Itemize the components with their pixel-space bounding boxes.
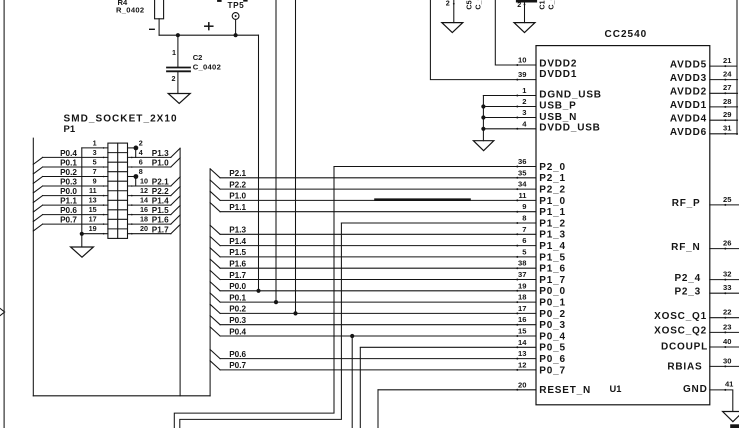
svg-text:10: 10 xyxy=(140,176,148,185)
svg-text:P0.3: P0.3 xyxy=(229,316,246,325)
svg-text:34: 34 xyxy=(518,180,527,189)
svg-text:P1: P1 xyxy=(64,124,76,135)
pin 35 P2_1 xyxy=(220,168,566,184)
bus entry P0.6 xyxy=(210,350,246,359)
pin 20 RESET_N xyxy=(378,380,591,396)
svg-text:USB_P: USB_P xyxy=(539,101,576,112)
P1 pin 17 P0.7 xyxy=(33,215,108,232)
bus entry P0.4 xyxy=(210,327,246,336)
svg-text:P0.2: P0.2 xyxy=(229,305,246,314)
svg-text:P0.4: P0.4 xyxy=(60,149,77,158)
pin 39 DVDD1 xyxy=(516,69,577,81)
svg-text:RF_P: RF_P xyxy=(672,198,701,209)
svg-text:P1.0: P1.0 xyxy=(152,159,169,168)
svg-text:2: 2 xyxy=(139,138,143,147)
svg-text:AVDD4: AVDD4 xyxy=(670,113,707,124)
capacitor C1 (top) lead xyxy=(524,3,526,23)
pin 22 XOSC_Q1 xyxy=(654,308,739,322)
svg-text:P0.6: P0.6 xyxy=(60,206,77,215)
wire VDD node to P0_0 xyxy=(258,35,260,291)
svg-text:R_0402: R_0402 xyxy=(116,5,144,14)
bus entry P1.1 xyxy=(210,203,246,212)
svg-text:4: 4 xyxy=(139,148,143,157)
svg-text:DCOUPL: DCOUPL xyxy=(661,342,708,353)
svg-text:P0.4: P0.4 xyxy=(229,327,246,336)
cropped mark top edge left xyxy=(217,0,222,2)
P1 pin 2 xyxy=(128,138,143,157)
svg-text:P2_0: P2_0 xyxy=(539,162,566,173)
bus entry P2.2 xyxy=(210,180,246,189)
P1 pin 11 P0.0 xyxy=(33,186,108,203)
svg-text:P1.6: P1.6 xyxy=(229,260,246,269)
svg-text:2: 2 xyxy=(517,0,521,9)
pin 33 P2_3 xyxy=(674,283,739,297)
pin 13 P0_6 xyxy=(220,349,566,365)
svg-text:P2.2: P2.2 xyxy=(229,180,246,189)
svg-text:28: 28 xyxy=(723,97,731,106)
capacitor C1 (top) plate xyxy=(516,0,537,3)
ground at C1 xyxy=(514,23,535,33)
pin 2 USB_P xyxy=(483,97,576,112)
svg-text:40: 40 xyxy=(723,337,731,346)
bus entry P1.5 xyxy=(210,248,246,257)
svg-text:26: 26 xyxy=(723,239,731,248)
P1 pin 20 P1.7 xyxy=(128,224,181,234)
svg-text:39: 39 xyxy=(518,70,526,79)
svg-text:P1.4: P1.4 xyxy=(152,197,169,206)
pin 5 P1_5 xyxy=(220,247,566,263)
svg-text:P0.0: P0.0 xyxy=(60,187,77,196)
junction P1 pin19 xyxy=(80,232,84,236)
junction on P0_0 wire xyxy=(256,289,260,293)
wire P0_4 tap down xyxy=(351,336,353,428)
svg-text:GND: GND xyxy=(683,384,708,395)
wire RESET_N route down xyxy=(377,390,379,428)
svg-text:P0_1: P0_1 xyxy=(539,298,566,309)
P1 pin 7 P0.2 xyxy=(33,167,108,184)
svg-text:P1.0: P1.0 xyxy=(229,192,246,201)
svg-text:38: 38 xyxy=(518,259,526,268)
ground at C2 xyxy=(168,94,190,104)
pin 41 GND xyxy=(683,380,734,412)
pin 7 P1_3 xyxy=(220,225,566,241)
svg-text:P0.2: P0.2 xyxy=(60,168,77,177)
svg-text:16: 16 xyxy=(140,205,148,214)
svg-text:11: 11 xyxy=(518,191,527,200)
svg-text:9: 9 xyxy=(522,202,526,211)
capacitor C2 xyxy=(167,35,190,93)
svg-text:C5: C5 xyxy=(465,0,474,9)
svg-text:DVDD2: DVDD2 xyxy=(539,58,577,69)
P1 pin 6 P1.0 xyxy=(128,157,181,167)
pin 18 P0_1 xyxy=(220,293,566,309)
bus socket-right vertical xyxy=(179,148,181,395)
svg-text:P1_6: P1_6 xyxy=(539,264,566,275)
svg-text:XOSC_Q2: XOSC_Q2 xyxy=(654,326,707,337)
svg-text:37: 37 xyxy=(518,270,526,279)
P1 pin 10 P2.1 xyxy=(128,176,181,186)
wire R4 to node xyxy=(158,19,160,35)
svg-text:1: 1 xyxy=(93,138,97,147)
svg-text:15: 15 xyxy=(518,327,527,336)
P1 pin 4 P1.3 xyxy=(128,148,181,158)
svg-text:P0.1: P0.1 xyxy=(60,159,77,168)
svg-text:P2.1: P2.1 xyxy=(152,178,169,187)
svg-text:6: 6 xyxy=(139,157,143,166)
svg-text:36: 36 xyxy=(518,157,526,166)
ground at USB xyxy=(473,141,493,151)
pin 37 P1_7 xyxy=(220,270,566,286)
svg-text:20: 20 xyxy=(518,380,526,389)
bold net segment on P1_0 xyxy=(376,198,470,201)
svg-text:P0.1: P0.1 xyxy=(229,293,246,302)
P1 pin 8 xyxy=(128,167,143,186)
IC U1 CC2540 body xyxy=(536,46,710,405)
pin 27 AVDD2 xyxy=(670,83,738,97)
pin 36 P2_0 xyxy=(334,157,566,173)
battery minus sign xyxy=(150,28,155,30)
capacitor C5 (top) xyxy=(453,0,455,23)
svg-text:14: 14 xyxy=(140,196,148,205)
svg-text:16: 16 xyxy=(518,315,526,324)
P1 pin 16 P1.5 xyxy=(128,205,181,215)
pin 1 DGND_USB xyxy=(483,86,601,101)
wire VDD node horizontal xyxy=(159,34,258,36)
svg-text:P1_5: P1_5 xyxy=(539,252,566,263)
svg-text:P2_4: P2_4 xyxy=(674,273,701,284)
svg-text:P1.5: P1.5 xyxy=(152,206,169,215)
svg-text:P1_4: P1_4 xyxy=(539,241,566,252)
wire USB ground stem xyxy=(482,96,484,141)
svg-text:18: 18 xyxy=(518,293,526,302)
bus entry P1.4 xyxy=(210,237,246,246)
pin 29 AVDD4 xyxy=(670,110,738,124)
junction on P0_1 wire xyxy=(274,300,278,304)
svg-text:P1_0: P1_0 xyxy=(539,196,566,207)
svg-text:C_0402: C_0402 xyxy=(474,0,483,10)
P1 pin 1 xyxy=(82,138,108,148)
svg-text:DVDD1: DVDD1 xyxy=(539,69,577,80)
pin 19 P0_0 xyxy=(220,281,566,297)
pin 25 RF_P xyxy=(672,195,739,209)
svg-text:P1.3: P1.3 xyxy=(229,226,246,235)
svg-text:AVDD1: AVDD1 xyxy=(670,100,707,111)
svg-text:P2_1: P2_1 xyxy=(539,173,566,184)
junction on P0_2 wire xyxy=(293,311,297,315)
P1 pin 15 P0.6 xyxy=(33,205,108,222)
pin 21 AVDD5 xyxy=(670,56,737,70)
svg-text:2: 2 xyxy=(522,97,526,106)
P1 pin 9 P0.3 xyxy=(33,176,108,193)
svg-text:21: 21 xyxy=(723,56,732,65)
svg-text:3: 3 xyxy=(522,108,526,117)
svg-text:P2.1: P2.1 xyxy=(229,169,246,178)
wire P2_0 route xyxy=(174,167,334,428)
wire AVDD rail xyxy=(736,0,738,135)
junction on P0_4 wire xyxy=(350,334,354,338)
wire DVDD2 rail to pin 10 xyxy=(495,0,536,65)
svg-text:CC2540: CC2540 xyxy=(605,29,648,40)
svg-text:23: 23 xyxy=(723,322,731,331)
svg-text:1: 1 xyxy=(522,86,527,95)
bus entry P0.3 xyxy=(210,316,246,325)
wire P1_2 route xyxy=(180,223,342,428)
svg-text:C_0402: C_0402 xyxy=(547,0,556,10)
P1 pin 19 xyxy=(82,224,108,234)
P1 pin 3 P0.4 xyxy=(33,148,108,165)
svg-text:P0.3: P0.3 xyxy=(60,178,77,187)
svg-text:AVDD5: AVDD5 xyxy=(670,59,707,70)
svg-text:7: 7 xyxy=(522,225,526,234)
svg-text:P1.1: P1.1 xyxy=(229,203,246,212)
pin 16 P0_3 xyxy=(220,315,566,331)
svg-text:8: 8 xyxy=(522,214,526,223)
pin 38 P1_6 xyxy=(220,259,566,275)
pin 17 P0_2 xyxy=(220,304,566,320)
pin 24 AVDD3 xyxy=(670,70,738,84)
svg-text:30: 30 xyxy=(723,356,731,365)
junction USB_P xyxy=(481,104,485,108)
svg-text:2: 2 xyxy=(172,74,176,83)
svg-text:11: 11 xyxy=(89,186,97,195)
cropped mark top edge right xyxy=(243,0,247,2)
svg-text:22: 22 xyxy=(723,308,731,317)
svg-text:17: 17 xyxy=(89,215,97,224)
svg-text:14: 14 xyxy=(518,338,527,347)
svg-text:P1.7: P1.7 xyxy=(229,271,246,280)
wire TP5 to node xyxy=(235,19,237,35)
junction at TP5 xyxy=(234,33,238,37)
pin 6 P1_4 xyxy=(220,236,566,252)
pin 8 P1_2 xyxy=(341,214,565,230)
svg-text:32: 32 xyxy=(723,270,731,279)
svg-text:P0.7: P0.7 xyxy=(229,361,246,370)
connector P1 SMD_SOCKET_2X10 body xyxy=(108,143,128,238)
svg-text:P1_3: P1_3 xyxy=(539,230,566,241)
svg-text:P0_2: P0_2 xyxy=(539,309,566,320)
svg-text:24: 24 xyxy=(723,70,732,79)
cropped mark bottom right xyxy=(730,424,739,428)
svg-text:TP5: TP5 xyxy=(228,1,245,10)
wire P0_5 route down xyxy=(359,348,361,428)
svg-text:6: 6 xyxy=(522,236,526,245)
pin 23 XOSC_Q2 xyxy=(654,322,739,336)
svg-text:P0.7: P0.7 xyxy=(60,216,77,225)
svg-text:15: 15 xyxy=(89,205,97,214)
test point TP5 xyxy=(232,13,239,20)
svg-text:P0.6: P0.6 xyxy=(229,350,246,359)
svg-text:RF_N: RF_N xyxy=(671,242,700,253)
svg-text:P0_6: P0_6 xyxy=(539,354,566,365)
svg-text:9: 9 xyxy=(93,176,97,185)
pin 14 P0_5 xyxy=(360,338,566,354)
svg-text:P1_2: P1_2 xyxy=(539,218,566,229)
P1 pin 18 P1.6 xyxy=(128,215,181,225)
svg-text:C2: C2 xyxy=(193,53,203,62)
svg-text:7: 7 xyxy=(93,167,97,176)
pin 3 USB_N xyxy=(483,108,577,123)
svg-text:12: 12 xyxy=(140,186,148,195)
svg-text:P0_0: P0_0 xyxy=(539,286,566,297)
svg-text:RESET_N: RESET_N xyxy=(539,385,591,396)
svg-text:P1.6: P1.6 xyxy=(152,216,169,225)
wire from top to P0_1 xyxy=(275,0,277,302)
junction USB_N xyxy=(481,115,485,119)
svg-text:8: 8 xyxy=(139,167,143,176)
svg-text:P2_2: P2_2 xyxy=(539,185,566,196)
pin 15 P0_4 xyxy=(220,327,566,343)
P1 pin 12 P2.2 xyxy=(128,186,181,196)
svg-text:P2.2: P2.2 xyxy=(152,187,169,196)
svg-text:33: 33 xyxy=(723,283,731,292)
bus entry P1.3 xyxy=(210,225,246,234)
svg-text:USB_N: USB_N xyxy=(539,112,577,123)
svg-text:AVDD3: AVDD3 xyxy=(670,73,707,84)
svg-text:12: 12 xyxy=(518,360,526,369)
pin 40 DCOUPL xyxy=(661,337,739,353)
pin 31 AVDD6 xyxy=(670,124,738,138)
pin 30 RBIAS xyxy=(667,356,739,372)
pin 11 P1_0 xyxy=(220,191,566,207)
pin 4 DVDD_USB xyxy=(483,119,600,133)
svg-text:P1_1: P1_1 xyxy=(539,207,566,218)
svg-text:P0_7: P0_7 xyxy=(539,365,566,376)
bus entry P1.0 xyxy=(210,191,246,200)
svg-text:25: 25 xyxy=(723,195,732,204)
bus entry P0.1 xyxy=(210,293,246,302)
svg-text:10: 10 xyxy=(518,56,526,65)
svg-text:4: 4 xyxy=(522,119,527,128)
svg-text:U1: U1 xyxy=(610,384,622,394)
svg-text:1: 1 xyxy=(172,48,176,57)
bus entry P0.7 xyxy=(210,361,246,370)
bus entry P1.7 xyxy=(210,270,246,279)
P1 pin 13 P1.1 xyxy=(33,196,108,213)
battery plus sign xyxy=(205,23,213,30)
resistor R4 body xyxy=(155,0,164,19)
svg-text:P1.7: P1.7 xyxy=(152,225,169,234)
svg-text:13: 13 xyxy=(89,196,97,205)
wire P1 pin1 to ground xyxy=(81,148,83,247)
svg-text:XOSC_Q1: XOSC_Q1 xyxy=(654,311,707,322)
ground at C5 xyxy=(442,23,463,33)
svg-text:35: 35 xyxy=(518,168,527,177)
svg-text:5: 5 xyxy=(522,247,527,256)
pin 32 P2_4 xyxy=(674,270,739,284)
svg-text:19: 19 xyxy=(89,224,97,233)
svg-text:2: 2 xyxy=(446,0,450,8)
svg-text:C_0402: C_0402 xyxy=(193,62,221,71)
wire from top to P0_2 xyxy=(295,0,297,313)
bus bottom horizontal xyxy=(33,395,210,397)
bus entry P1.6 xyxy=(210,259,246,268)
svg-text:P1_7: P1_7 xyxy=(539,275,566,286)
svg-text:DGND_USB: DGND_USB xyxy=(539,90,602,101)
bus entry P0.0 xyxy=(210,282,246,291)
svg-text:P0_5: P0_5 xyxy=(539,343,566,354)
svg-text:P0.0: P0.0 xyxy=(229,282,246,291)
svg-text:41: 41 xyxy=(725,380,734,389)
off-page connector arrow xyxy=(0,309,4,316)
svg-text:P1.5: P1.5 xyxy=(229,248,246,257)
bus entry P0.2 xyxy=(210,304,246,313)
svg-text:29: 29 xyxy=(723,110,731,119)
pin 9 P1_1 xyxy=(220,202,566,218)
svg-text:5: 5 xyxy=(93,157,97,166)
svg-text:3: 3 xyxy=(93,148,97,157)
ground at P1 xyxy=(71,247,94,257)
svg-text:P1.4: P1.4 xyxy=(229,237,246,246)
bus chip-side vertical xyxy=(209,169,211,396)
pin 12 P0_7 xyxy=(220,360,566,376)
svg-text:RBIAS: RBIAS xyxy=(667,361,702,372)
svg-text:P1.3: P1.3 xyxy=(152,149,169,158)
svg-text:20: 20 xyxy=(140,224,148,233)
svg-text:P0_3: P0_3 xyxy=(539,320,566,331)
svg-text:AVDD2: AVDD2 xyxy=(670,87,707,98)
svg-text:AVDD6: AVDD6 xyxy=(670,127,707,138)
svg-text:13: 13 xyxy=(518,349,526,358)
svg-text:17: 17 xyxy=(518,304,526,313)
svg-text:SMD_SOCKET_2X10: SMD_SOCKET_2X10 xyxy=(64,114,178,125)
svg-text:P0_4: P0_4 xyxy=(539,331,566,342)
svg-text:18: 18 xyxy=(140,215,148,224)
pin 10 DVDD2 xyxy=(516,56,577,70)
svg-text:DVDD_USB: DVDD_USB xyxy=(539,123,600,134)
bus left vertical xyxy=(32,138,34,396)
svg-text:31: 31 xyxy=(723,124,732,133)
svg-text:P1.1: P1.1 xyxy=(60,197,77,206)
P1 pin 14 P1.4 xyxy=(128,196,181,206)
ground at GND pin xyxy=(723,412,739,422)
svg-text:27: 27 xyxy=(723,83,731,92)
junction at C2 top xyxy=(176,33,180,37)
pin 26 RF_N xyxy=(671,239,739,253)
svg-text:P2_3: P2_3 xyxy=(674,286,701,297)
junction DVDD_USB xyxy=(481,127,485,131)
wire DVDD1 rail to pin 39 xyxy=(430,0,536,80)
svg-text:C1: C1 xyxy=(538,0,547,9)
P1 pin 5 P0.1 xyxy=(33,157,108,174)
svg-text:19: 19 xyxy=(518,281,526,290)
pin 34 P2_2 xyxy=(220,180,566,196)
bus entry P2.1 xyxy=(210,169,246,178)
pin 28 AVDD1 xyxy=(670,97,738,111)
